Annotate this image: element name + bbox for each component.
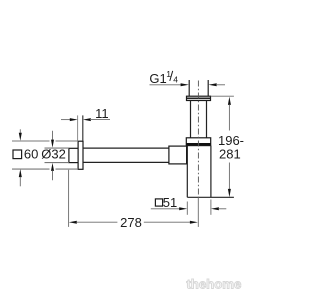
svg-text:G1: G1 <box>149 71 166 86</box>
svg-text:281: 281 <box>219 147 241 162</box>
svg-text:thehome: thehome <box>186 277 241 292</box>
svg-text:51: 51 <box>163 195 177 210</box>
svg-text:11: 11 <box>95 106 109 121</box>
svg-text:60: 60 <box>24 147 38 162</box>
svg-text:Ø32: Ø32 <box>41 147 66 162</box>
svg-text:4: 4 <box>173 74 178 84</box>
svg-text:278: 278 <box>120 215 142 230</box>
